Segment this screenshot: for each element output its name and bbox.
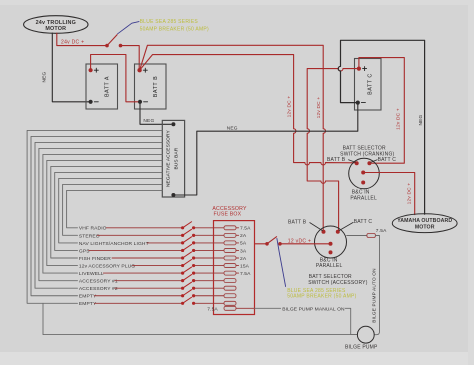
- svg-text:NEG: NEG: [418, 114, 424, 125]
- terminal BATT A -: [89, 100, 93, 104]
- fuse F12 7.5A (bilge auto): [347, 228, 387, 238]
- svg-text:7.5A: 7.5A: [376, 228, 387, 234]
- battery selector switch S1 (cranking): [349, 158, 380, 189]
- svg-text:12v DC +: 12v DC +: [396, 108, 402, 130]
- terminal BATT B -: [138, 100, 142, 104]
- svg-text:50AMP BREAKER (50 AMP): 50AMP BREAKER (50 AMP): [287, 294, 356, 300]
- svg-text:12v ACCESSORY PLUG: 12v ACCESSORY PLUG: [79, 263, 135, 269]
- svg-text:BATT C: BATT C: [378, 157, 397, 163]
- wire bilge pump return (outer loop): [43, 303, 357, 334]
- label S2 BATT B: [288, 220, 307, 226]
- circuit breaker CB2 (accessory): [265, 236, 282, 245]
- label S1 BATT B: [327, 157, 346, 163]
- net label NEG (trolling): [42, 71, 48, 82]
- svg-text:SWITCH (ACCESSORY): SWITCH (ACCESSORY): [308, 280, 367, 286]
- accessory fuse box FB1: [214, 221, 255, 315]
- label S1 title: [340, 145, 394, 157]
- leader to note CB1: [118, 22, 139, 34]
- svg-text:BATT A: BATT A: [105, 76, 111, 97]
- svg-text:PARALLEL: PARALLEL: [350, 195, 377, 201]
- svg-text:GPS: GPS: [79, 248, 90, 254]
- net label NEG (run): [227, 125, 238, 131]
- svg-text:12 vDC +: 12 vDC +: [288, 239, 311, 245]
- fuse row ACCESSORY #2 (spare) with switch: [35, 142, 236, 292]
- fuse row EMPTY (spare) with switch: [31, 136, 236, 299]
- svg-text:5A: 5A: [240, 241, 247, 247]
- net label NEG (batt B): [143, 118, 154, 124]
- svg-text:NEG: NEG: [227, 125, 238, 131]
- fuse row GPS 3A with switch: [55, 172, 247, 254]
- fuse row ACCESSORY #1 (spare) with switch: [39, 148, 236, 284]
- fuse row LIVEWELL 7.5A with switch: [43, 154, 251, 277]
- battery BATT B: [135, 64, 167, 109]
- wire series link BATT A+ to BATT B- (24v): [91, 55, 138, 102]
- wire breaker CB1 to BATT B +: [121, 46, 140, 69]
- label bilge pump: [345, 344, 378, 350]
- label S1 B&C IN PARALLEL: [350, 190, 377, 202]
- fuse F11 7.5A (bilge manual) row: [207, 306, 254, 312]
- bilge pump M3: [357, 326, 374, 343]
- svg-text:MOTOR: MOTOR: [415, 224, 435, 230]
- svg-text:FISH FINDER: FISH FINDER: [79, 256, 111, 262]
- svg-text:BILGE PUMP: BILGE PUMP: [345, 344, 378, 350]
- svg-text:VHF RADIO: VHF RADIO: [79, 226, 107, 232]
- fuse row EMPTY (spare) with switch: [27, 130, 236, 307]
- net label NEG (yamaha): [418, 114, 424, 125]
- wire negative bus bar to BATT C- (NEG run): [173, 105, 357, 195]
- leader to note CB2: [277, 239, 286, 287]
- wire BATT B- to negative bus bar: [140, 104, 171, 124]
- net label 12v DC + (feeder at x=404): [396, 108, 402, 130]
- label fuse box title: [212, 206, 247, 218]
- trolling motor M1 (24v trolling motor): [24, 16, 88, 34]
- label S2 title: [308, 274, 367, 286]
- svg-text:50AMP BREAKER (50 AMP): 50AMP BREAKER (50 AMP): [140, 26, 209, 32]
- svg-text:EMPTY: EMPTY: [79, 294, 97, 300]
- fuse row STEREO 2A with switch: [63, 184, 247, 239]
- leader S2 BATT C: [339, 222, 353, 230]
- label S2 BATT C: [354, 219, 373, 225]
- battery BATT A: [86, 64, 118, 109]
- label S2 B&C IN PARALLEL: [316, 258, 343, 270]
- net label 12v DC + (feeder at x=294): [286, 96, 292, 118]
- yamaha outboard motor M2: [392, 214, 457, 233]
- svg-text:15A: 15A: [240, 263, 250, 269]
- svg-text:BATT C: BATT C: [354, 219, 373, 225]
- svg-text:BILGE PUMP MANUAL ON: BILGE PUMP MANUAL ON: [282, 306, 345, 312]
- svg-text:BATT B: BATT B: [327, 157, 346, 163]
- svg-text:BATT C: BATT C: [368, 73, 374, 95]
- svg-text:12v DC +: 12v DC +: [286, 96, 292, 118]
- svg-text:7.5A: 7.5A: [240, 271, 251, 277]
- svg-text:YAMAHA OUTBOARD: YAMAHA OUTBOARD: [397, 218, 452, 224]
- value label 12 vDC +: [288, 239, 311, 245]
- svg-text:7.5A: 7.5A: [240, 226, 251, 232]
- svg-text:NEG: NEG: [143, 118, 154, 124]
- svg-text:2A: 2A: [240, 233, 247, 239]
- battery selector switch S2 (accessory): [315, 226, 347, 258]
- svg-text:12v DC +: 12v DC +: [406, 183, 412, 205]
- negative accessory bus bar TB1: [162, 120, 184, 197]
- wire bilge pump manual on: [255, 308, 358, 334]
- svg-text:NEGATIVE ACCESSORY: NEGATIVE ACCESSORY: [165, 130, 171, 188]
- leader S1 BATT B: [349, 160, 356, 162]
- wire BATT C+ to cranking selector BATT C: [359, 58, 404, 164]
- wire BATT C+ to accessory selector BATT C: [307, 69, 359, 231]
- svg-text:STEREO: STEREO: [79, 233, 100, 239]
- fuse row VHF RADIO 7.5A with switch: [67, 190, 251, 231]
- svg-text:NAV LIGHTS/ANCHOR LIGHT: NAV LIGHTS/ANCHOR LIGHT: [79, 241, 149, 247]
- svg-text:3A: 3A: [240, 248, 247, 254]
- terminal bus bar bottom: [171, 193, 175, 197]
- svg-text:FUSE BOX: FUSE BOX: [214, 212, 242, 218]
- svg-text:BLUE SEA 285 SERIES: BLUE SEA 285 SERIES: [140, 19, 199, 25]
- svg-text:BATT B: BATT B: [288, 220, 307, 226]
- net label BILGE PUMP AUTO ON: [372, 268, 377, 322]
- wire NEG trolling motor to BATT A-: [52, 33, 89, 102]
- wire BATT B+ to 12v feeder (upper) to accessory selector BATT B: [140, 45, 326, 230]
- terminal BATT C -: [356, 101, 360, 105]
- leader S2 BATT B: [310, 223, 323, 231]
- svg-text:EMPTY: EMPTY: [79, 301, 97, 307]
- net label 12v DC + (feeder at x=323): [316, 97, 322, 119]
- value label 24v DC +: [61, 39, 84, 45]
- svg-text:NEG: NEG: [42, 71, 48, 82]
- svg-text:LIVEWELL: LIVEWELL: [79, 271, 104, 277]
- terminal BATT A +: [89, 68, 93, 72]
- circuit breaker CB1 (trolling, blue sea 50A): [105, 34, 122, 47]
- wire accessory selector output 12 vDC + to fuse box: [255, 243, 331, 245]
- svg-text:ACCESSORY #2: ACCESSORY #2: [79, 286, 118, 292]
- label S1 BATT C: [378, 157, 397, 163]
- svg-text:7.5A: 7.5A: [207, 306, 218, 312]
- net label 12v DC + (yamaha): [406, 183, 412, 205]
- wire cranking selector output to yamaha 12v DC +: [363, 173, 415, 215]
- note CB1 (yellow): [140, 19, 209, 33]
- terminal bus bar top: [171, 122, 175, 126]
- svg-text:ACCESSORY #1: ACCESSORY #1: [79, 279, 118, 285]
- terminal BATT B +: [137, 68, 141, 72]
- svg-text:24v DC +: 24v DC +: [61, 39, 84, 45]
- svg-text:BILGE PUMP AUTO ON: BILGE PUMP AUTO ON: [372, 268, 377, 322]
- svg-text:12v DC +: 12v DC +: [316, 97, 322, 119]
- svg-text:PARALLEL: PARALLEL: [316, 263, 343, 269]
- leader S1 BATT C: [371, 160, 377, 162]
- terminal BATT C +: [357, 67, 361, 71]
- wire bilge pump auto on: [375, 236, 380, 335]
- fuse row NAV LIGHTS/ANCHOR LIGHT 5A with switch: [59, 178, 247, 246]
- fuse row FISH FINDER 2A with switch: [51, 166, 247, 262]
- net label BILGE PUMP MANUAL ON: [282, 306, 345, 312]
- svg-text:BATT B: BATT B: [153, 76, 159, 97]
- wire 24v DC + trolling motor to breaker CB1: [57, 33, 105, 45]
- note CB2 (yellow): [287, 288, 356, 300]
- wire BATT B+ to 12v feeder (lower) to cranking selector BATT B: [140, 55, 355, 165]
- svg-text:BUS BAR: BUS BAR: [173, 147, 179, 169]
- svg-text:MOTOR: MOTOR: [45, 26, 66, 32]
- wire BATT C- loop to yamaha NEG: [338, 40, 424, 214]
- fuse row 12v ACCESSORY PLUG 15A with switch: [47, 160, 250, 269]
- battery BATT C: [355, 59, 382, 111]
- svg-text:2A: 2A: [240, 256, 247, 262]
